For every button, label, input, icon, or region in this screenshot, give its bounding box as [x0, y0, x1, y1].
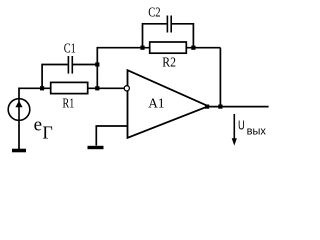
svg-text:e: e: [34, 115, 42, 136]
ground (op-amp + input): [88, 146, 104, 149]
wire: source bottom vertical to ground: [18, 120, 20, 149]
wire: feedback left segment to R2: [97, 47, 149, 49]
capacitor C1 left bracket wire: [42, 65, 68, 89]
source eГ internal shaft: [18, 99, 20, 120]
junction node: summing node at main wire: [95, 86, 99, 90]
output arrow shaft: [233, 114, 235, 141]
wire: R1 right to op-amp inverting input: [88, 87, 125, 89]
svg-text:R1: R1: [63, 95, 75, 111]
svg-text:U: U: [238, 119, 245, 133]
resistor R2: [150, 42, 187, 53]
wire: node vertical (inverting node up to feedback): [96, 47, 98, 88]
junction node: output/feedback junction: [218, 105, 222, 109]
op-amp inverting input circle: [124, 86, 129, 91]
op-amp A1 triangle: [128, 70, 209, 138]
svg-text:C2: C2: [148, 4, 160, 20]
resistor R1: [51, 82, 88, 93]
junction node: C1 top wire at node vertical: [95, 62, 99, 66]
capacitor C2 right bracket wire: [172, 24, 193, 48]
junction node: C1 left at main wire: [40, 86, 44, 90]
junction node: op-amp output tip: [205, 105, 209, 109]
svg-text:C1: C1: [64, 40, 76, 56]
wire: source top vertical + main input wire to R1: [19, 88, 51, 99]
svg-text:R2: R2: [162, 54, 176, 70]
wire: R2 right to corner: [186, 47, 220, 49]
capacitor C1 right wire to node vertical: [73, 64, 97, 66]
svg-text:A1: A1: [148, 95, 164, 110]
output arrowhead: [232, 138, 237, 145]
svg-text:вых: вых: [247, 125, 267, 137]
svg-text:Г: Г: [42, 123, 52, 143]
capacitor C1 plates: [68, 56, 72, 74]
wire: output line: [208, 106, 269, 108]
wire: non-inverting input + ground stem: [96, 126, 127, 146]
capacitor C2 left bracket wire: [143, 24, 167, 48]
junction node: C2 left at feedback wire: [140, 46, 144, 50]
source eГ circle: [8, 99, 30, 121]
ground (source): [12, 149, 26, 153]
wire: feedback right vertical down to output: [219, 48, 221, 107]
source eГ arrowhead: [15, 101, 22, 107]
capacitor C2 plates: [167, 16, 171, 33]
junction node: C2 right at feedback wire: [191, 46, 195, 50]
